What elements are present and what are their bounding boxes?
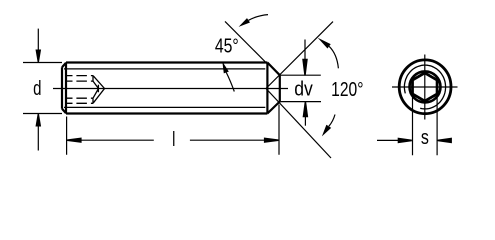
end view thread circle 3/4 arc [404,65,445,109]
s extension lines [413,96,438,156]
end view outer circle [399,60,451,114]
end view centerline vertical [424,55,426,120]
thread minor diameter lines [64,69,265,108]
centerline of side view [53,88,288,90]
120 degree leader arc bottom [329,115,335,127]
hex socket hexagon [413,73,438,101]
dv extension lines [281,75,321,101]
120 degree arrowhead bottom [322,125,331,137]
cone point outline [267,63,279,114]
svg-text:dv: dv [294,78,313,100]
svg-text:120°: 120° [331,78,363,100]
hex socket hidden lines [66,76,93,104]
svg-text:l: l [172,128,175,151]
120 degree arrowhead top [318,38,331,49]
end view chamfer circle [410,71,441,102]
cone flank construction line upper [266,22,333,89]
leader arrow to thread edge [226,73,234,92]
45 degree arc arrowhead [239,18,250,27]
120 degree leader arc top [329,46,338,68]
svg-text:45°: 45° [215,35,239,57]
svg-text:d: d [33,77,41,100]
s dimension stems [377,139,452,141]
l arrowhead left [67,138,81,143]
d extension lines [23,63,62,114]
end view centerline horizontal [392,86,458,88]
svg-text:s: s [421,126,429,148]
dv arrow top [304,40,306,60]
screw body outline [62,63,267,114]
l arrowhead right [264,138,278,143]
l extension lines [67,105,279,155]
dv arrow bottom [304,117,306,126]
d arrow top [37,29,39,51]
45 degree arc [249,15,269,21]
s arrowhead left [398,138,412,144]
s arrowhead right [438,138,452,144]
d arrow bottom [37,126,39,151]
socket drill point V [93,76,105,104]
cone flank construction line lower [266,89,331,159]
l dimension line [67,139,279,141]
45 degree chamfer line [225,21,267,64]
hex socket corner edges [92,76,94,104]
